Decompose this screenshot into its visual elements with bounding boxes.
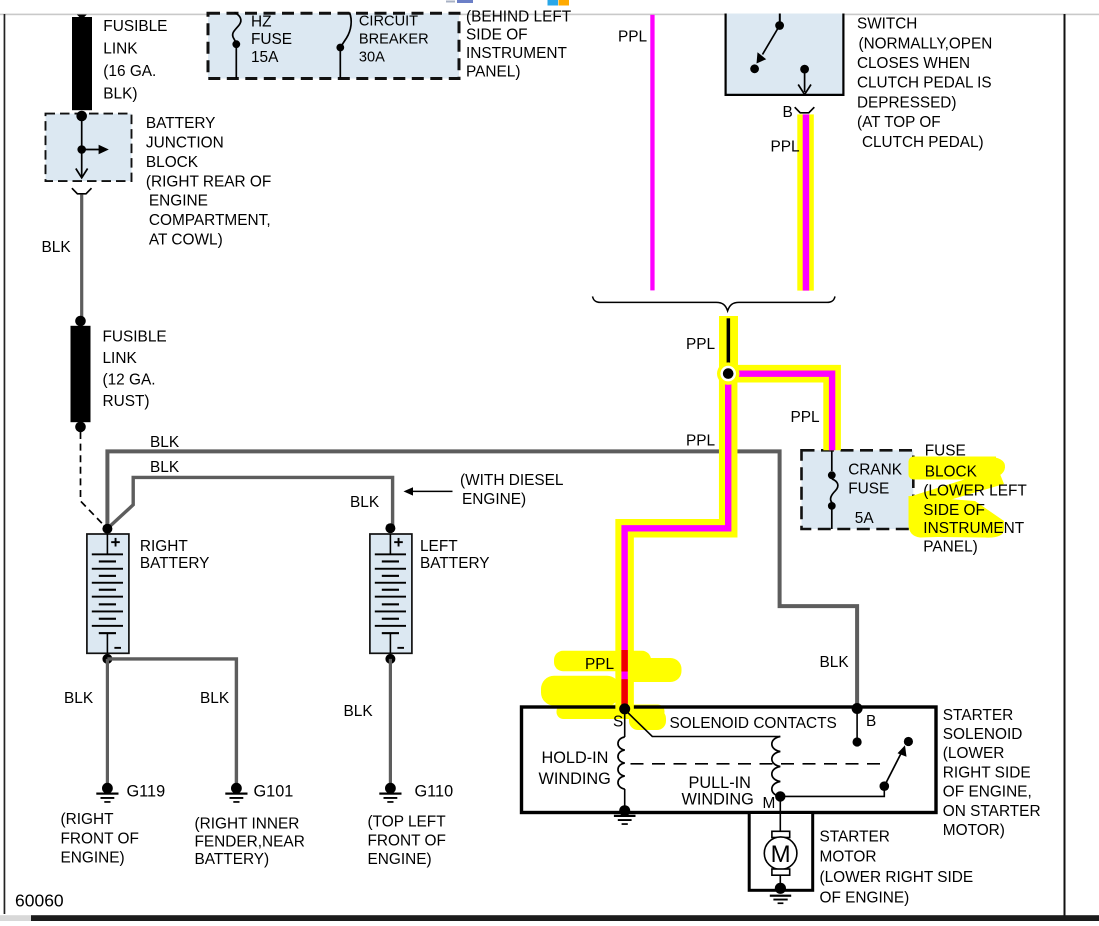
svg-text:JUNCTION: JUNCTION [146,135,224,152]
label FUSIBLE LINK (16 GA. BLK) [103,18,167,103]
right battery plus terminal [111,541,120,543]
label (BEHIND LEFT SIDE OF INSTRUMENT PANEL) [466,8,572,80]
solenoid plunger dashed link [631,763,885,765]
svg-text:PPL: PPL [618,29,648,46]
splice brace [593,296,836,311]
node left battery positive [385,523,395,533]
svg-text:G110: G110 [415,782,454,800]
cropped header icon orange [559,0,570,6]
label BATTERY JUNCTION BLOCK (RIGHT REAR OF ENGINE COMPARTMENT, AT COWL) [146,115,271,248]
crank fuse input wire [831,450,833,471]
wire PPL from instrument panel [650,15,654,291]
svg-text:BLOCK: BLOCK [146,154,199,171]
junction block internal wire [81,116,83,150]
switch output arrow [804,69,806,92]
label SWITCH (NORMALLY,OPEN CLOSES WHEN CLUTCH PEDAL IS DEPRESSED) (AT TOP OF CLUTCH PEDAL) [857,16,992,151]
diagram left border [4,14,6,914]
label (RIGHT INNER FENDER,NEAR BATTERY) [195,816,305,869]
svg-text:BLOCK: BLOCK [925,464,978,481]
fuse block box (HZ fuse + circuit breaker) [208,13,459,78]
wire PPL junction to starter solenoid S (highlighted) [625,374,729,709]
wire M to motor [779,796,781,831]
node below fusible link F2 [75,422,86,433]
bottom taskbar light segment [0,915,31,921]
svg-text:SOLENOID CONTACTS: SOLENOID CONTACTS [670,715,837,732]
wire BLK battery to starter solenoid B [107,451,857,708]
label (TOP LEFT FRONT OF ENGINE) [368,814,447,869]
node S terminal [619,703,630,714]
svg-text:CRANK: CRANK [848,461,903,478]
wire S to pull-in winding [626,711,780,737]
svg-text:60060: 60060 [15,891,64,911]
svg-text:LEFT: LEFT [420,538,458,555]
svg-text:PPL: PPL [686,433,716,450]
switch common contact node [775,21,784,30]
dashed wire from fusible link F2 to battery [81,432,107,528]
switch blade arrow [763,26,780,55]
node right battery negative [102,654,112,664]
svg-text:SIDE OF: SIDE OF [923,502,985,519]
svg-text:HOLD-IN: HOLD-IN [542,749,609,767]
node above fusible link F2 [75,316,86,327]
svg-text:BATTERY: BATTERY [140,555,210,572]
bottom taskbar [31,915,1099,921]
svg-text:STARTER: STARTER [820,829,890,846]
junction block node [77,145,86,154]
svg-text:BLK: BLK [42,239,72,256]
svg-text:(16 GA.: (16 GA. [103,63,156,80]
junction block down arrow [81,150,83,177]
clutch start switch box [725,14,845,97]
crank fuse element [831,479,838,503]
splice node of PPL wires [717,362,739,384]
svg-text:COMPARTMENT,: COMPARTMENT, [149,212,271,229]
svg-text:BLK: BLK [820,654,850,671]
svg-text:ENGINE): ENGINE) [368,851,432,868]
svg-text:5A: 5A [855,510,875,527]
wire PPL from clutch switch (highlighted) [797,114,814,290]
svg-text:BATTERY): BATTERY) [195,851,270,868]
svg-text:(LOWER RIGHT SIDE: (LOWER RIGHT SIDE [820,869,974,886]
wire right battery to ground G101 [107,659,236,783]
crank fuse block box [802,450,914,529]
starter motor box [749,813,813,891]
svg-text:CIRCUIT: CIRCUIT [359,14,418,30]
svg-text:CLOSES WHEN: CLOSES WHEN [857,55,970,72]
connector below switch [795,107,815,113]
svg-text:(12 GA.: (12 GA. [103,372,156,389]
node B terminal [852,703,863,714]
svg-text:OF ENGINE,: OF ENGINE, [943,784,1032,801]
crank fuse output wire [831,510,833,530]
svg-text:BATTERY: BATTERY [146,115,216,132]
crank fuse top node [828,471,836,479]
label FUSIBLE LINK (12 GA. RUST) [103,329,167,411]
battery junction block box [46,114,132,182]
svg-text:OF ENGINE): OF ENGINE) [820,890,910,907]
svg-text:DEPRESSED): DEPRESSED) [857,94,956,111]
svg-text:CLUTCH PEDAL): CLUTCH PEDAL) [862,134,984,151]
left battery plus terminal [394,541,403,543]
svg-text:(LOWER: (LOWER [943,745,1005,762]
svg-text:G101: G101 [254,782,294,800]
svg-text:SWITCH: SWITCH [857,16,917,33]
svg-text:PPL: PPL [585,656,615,673]
svg-text:FUSE: FUSE [848,480,889,497]
circuit breaker element [341,13,351,47]
svg-text:BATTERY: BATTERY [420,555,490,572]
label CIRCUIT BREAKER 30A [359,14,429,66]
svg-text:PANEL): PANEL) [466,63,520,80]
svg-text:(LOWER LEFT: (LOWER LEFT [923,482,1027,499]
svg-text:BLK: BLK [344,703,374,720]
wire PPL junction to crank fuse (highlighted) [728,374,832,451]
diesel engine note arrow [404,487,414,495]
wire BLK from junction block to fusible link F2 [80,195,83,318]
svg-text:(RIGHT INNER: (RIGHT INNER [195,816,300,833]
cropped header icon blue [548,0,559,6]
motor brush upper [772,831,790,837]
node moving contact [904,737,913,746]
svg-text:ON STARTER: ON STARTER [943,803,1041,820]
svg-text:WINDING: WINDING [682,791,754,809]
svg-text:RIGHT: RIGHT [140,538,188,555]
label CRANK FUSE 5A [848,461,903,527]
highlighter scribble over PPL wire at S terminal [541,651,682,730]
label (RIGHT FRONT OF ENGINE) [61,811,139,867]
svg-text:BLK: BLK [350,494,380,511]
svg-text:FRONT OF: FRONT OF [368,832,446,849]
node M terminal [775,791,785,801]
diagram right border [1064,14,1066,916]
svg-text:B: B [866,713,876,730]
svg-text:ENGINE): ENGINE) [462,491,526,508]
wire PPL red overlap segments under highlighter [621,650,627,672]
label HZ FUSE 15A [251,14,292,66]
svg-text:BLK: BLK [150,434,180,451]
connector at junction block output [72,188,92,194]
svg-text:ENGINE): ENGINE) [61,850,125,867]
switch input wire stub [779,14,781,23]
svg-text:G119: G119 [127,782,166,800]
node left battery negative [385,654,395,664]
label HOLD-IN WINDING [539,749,611,788]
svg-text:RUST): RUST) [103,393,150,410]
svg-text:FUSE: FUSE [925,442,966,459]
junction block right arrow [82,149,100,151]
svg-text:BLK: BLK [64,690,94,707]
svg-text:SOLENOID: SOLENOID [943,726,1023,743]
cropped header text fragment [446,1,455,3]
svg-text:FRONT OF: FRONT OF [61,830,139,847]
crank fuse bottom node [828,502,836,510]
svg-text:RIGHT SIDE: RIGHT SIDE [943,764,1031,781]
label RIGHT BATTERY [140,538,210,572]
node right battery positive [102,524,112,534]
solenoid contact arm arrow [884,754,901,787]
svg-text:FUSE: FUSE [251,31,292,48]
svg-text:(BEHIND LEFT: (BEHIND LEFT [466,8,572,25]
svg-text:MOTOR: MOTOR [820,849,877,866]
left battery minus terminal [397,647,404,649]
wire left battery to ground G110 [389,659,392,783]
wire motor to ground [779,875,781,888]
svg-text:(NORMALLY,OPEN: (NORMALLY,OPEN [859,35,993,52]
wire M to contact arm [780,789,884,796]
starter solenoid box fill [522,707,937,813]
HZ fuse element [233,13,241,44]
pull-in winding coil [772,737,780,797]
switch lower-left contact node [750,64,759,73]
hold-in winding coil [624,709,626,737]
svg-text:BLK: BLK [200,690,230,707]
left battery body [370,534,412,653]
wire PPL stub below brace (highlighted) [719,316,738,374]
wire right battery to ground G119 [106,659,109,783]
svg-text:(WITH DIESEL: (WITH DIESEL [460,472,564,489]
fusible link (16 GA. BLK) body [72,17,92,110]
highlighter marks on FUSE BLOCK label [909,457,1006,538]
svg-text:FUSIBLE: FUSIBLE [103,18,167,35]
svg-text:WINDING: WINDING [539,770,611,788]
ground G110 [385,783,396,794]
svg-text:CLUTCH PEDAL IS: CLUTCH PEDAL IS [857,75,992,92]
fusible link (12 GA. RUST) body [71,326,91,422]
svg-text:LINK: LINK [103,350,138,367]
motor ground node [775,883,786,894]
ground G119 [102,783,113,794]
svg-text:S: S [613,714,623,731]
switch right contact node [800,65,809,74]
svg-text:(RIGHT: (RIGHT [61,811,115,828]
svg-text:PANEL): PANEL) [923,538,977,555]
svg-text:MOTOR): MOTOR) [943,822,1005,839]
node: fusible link to junction block [76,111,87,122]
label FUSE BLOCK (LOWER LEFT SIDE OF INSTRUMENT PANEL) [923,442,1027,555]
svg-text:HZ: HZ [251,14,272,31]
right battery minus terminal [114,647,121,649]
svg-text:BLK: BLK [150,459,180,476]
svg-text:15A: 15A [251,49,279,66]
label STARTER MOTOR (LOWER RIGHT SIDE OF ENGINE) [820,829,974,907]
label STARTER SOLENOID (LOWER RIGHT SIDE OF ENGINE, ON STARTER MOTOR) [943,707,1041,839]
svg-text:FENDER,NEAR: FENDER,NEAR [195,833,305,850]
page top rule [0,14,1099,16]
right battery body [87,534,129,653]
svg-text:LINK: LINK [103,41,138,58]
wire BLK right battery to left battery (diesel) [108,477,393,528]
svg-text:BREAKER: BREAKER [359,32,429,48]
solenoid internal ground [614,815,636,817]
node B fixed contact [853,737,862,746]
starter solenoid box border [522,707,937,813]
svg-text:(AT TOP OF: (AT TOP OF [857,114,941,131]
left battery cell plates [375,534,406,653]
svg-text:B: B [783,104,793,121]
svg-text:STARTER: STARTER [943,707,1013,724]
right battery cell plates [92,534,123,653]
svg-text:FUSIBLE: FUSIBLE [103,329,167,346]
wire arrow into fusible link F1 [77,15,87,20]
svg-text:AT COWL): AT COWL) [149,232,223,249]
ground G101 [231,783,242,794]
node hold-in winding to ground [619,805,630,816]
svg-text:(RIGHT REAR OF: (RIGHT REAR OF [146,173,271,190]
svg-text:M: M [771,841,791,868]
wire B to fixed contact [856,709,858,740]
svg-text:PPL: PPL [686,336,716,353]
svg-text:SIDE OF: SIDE OF [466,27,528,44]
svg-text:ENGINE: ENGINE [149,193,208,210]
svg-text:PULL-IN: PULL-IN [689,774,751,792]
svg-text:(TOP LEFT: (TOP LEFT [368,814,447,831]
svg-text:PPL: PPL [791,409,821,426]
node M contact pivot [880,781,890,791]
motor brush lower [772,869,790,875]
motor armature M [764,837,797,870]
svg-text:INSTRUMENT: INSTRUMENT [923,520,1024,537]
svg-text:30A: 30A [359,50,385,66]
svg-text:BLK): BLK) [103,86,137,103]
label (WITH DIESEL ENGINE) [460,472,564,508]
motor ground [770,895,791,897]
label PULL-IN WINDING [682,774,754,808]
svg-text:PPL: PPL [771,139,801,156]
svg-text:INSTRUMENT: INSTRUMENT [466,45,567,62]
label LEFT BATTERY [420,538,490,572]
svg-text:M: M [763,795,776,812]
